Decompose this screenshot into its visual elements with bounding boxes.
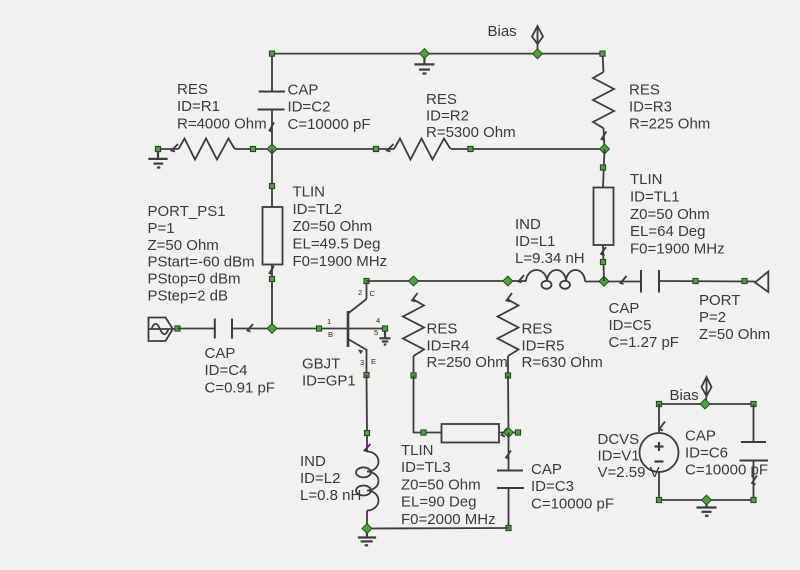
svg-text:R=630 Ohm: R=630 Ohm — [522, 354, 603, 371]
svg-text:RES: RES — [426, 91, 457, 108]
svg-text:EL=64 Deg: EL=64 Deg — [630, 223, 705, 240]
capacitor C6 — [740, 404, 769, 500]
resistor R5 — [498, 293, 519, 376]
svg-text:TLIN: TLIN — [293, 184, 326, 201]
svg-text:EL=49.5 Deg: EL=49.5 Deg — [293, 236, 381, 253]
node TL2 pin1 — [269, 183, 274, 188]
node TL1 pin1 — [600, 165, 605, 170]
node C6 top — [751, 401, 756, 406]
svg-text:ID=V1: ID=V1 — [598, 448, 640, 465]
ground GBJT substrate — [380, 331, 391, 345]
wire R4 down to TL3 — [414, 376, 424, 433]
svg-text:R=225 Ohm: R=225 Ohm — [629, 116, 710, 133]
svg-text:ID=GP1: ID=GP1 — [302, 373, 356, 390]
node TL1 pin2 — [600, 259, 605, 264]
svg-text:ID=C6: ID=C6 — [685, 445, 728, 462]
svg-text:PStep=2 dB: PStep=2 dB — [148, 288, 228, 305]
wire R1-R2-R3 rail — [158, 148, 179, 150]
svg-text:Bias: Bias — [488, 23, 517, 40]
svg-text:TLIN: TLIN — [401, 442, 434, 459]
resistor R2 — [394, 139, 451, 160]
svg-text:ID=R2: ID=R2 — [426, 108, 469, 125]
svg-text:Z0=50 Ohm: Z0=50 Ohm — [630, 206, 710, 223]
node DCVS bottom — [656, 497, 661, 502]
svg-text:ID=C5: ID=C5 — [609, 317, 652, 334]
node L2 pin1 — [364, 430, 369, 435]
svg-text:IND: IND — [515, 216, 541, 233]
inductor L2 — [356, 433, 379, 529]
svg-text:3: 3 — [360, 358, 364, 367]
node R1 pin1 — [155, 146, 160, 151]
transistor GBJT GP1 — [348, 281, 367, 375]
svg-text:ID=C4: ID=C4 — [205, 362, 248, 379]
wire DCVS top rail — [659, 403, 754, 405]
capacitor C5 — [621, 270, 660, 293]
svg-text:PStop=0 dBm: PStop=0 dBm — [148, 271, 241, 288]
wire C5 to port2 — [659, 280, 755, 283]
wire DCVS bottom rail — [659, 499, 754, 501]
svg-text:ID=TL1: ID=TL1 — [630, 188, 680, 205]
node GBJT collector — [364, 278, 369, 283]
node TL3 pin1 — [421, 430, 426, 435]
ground L2 bottom — [358, 532, 376, 545]
svg-text:ID=R3: ID=R3 — [629, 99, 672, 116]
wire L1 to C5 — [585, 281, 641, 283]
svg-text:C=1.27 pF: C=1.27 pF — [609, 334, 679, 351]
svg-text:DCVS: DCVS — [598, 431, 640, 448]
ground top rail — [414, 54, 434, 74]
node R5 pin2 — [505, 373, 510, 378]
wire top bias rail — [272, 53, 603, 55]
svg-text:ID=TL2: ID=TL2 — [293, 201, 343, 218]
wire emitter to L2 — [366, 375, 369, 433]
svg-text:1: 1 — [327, 317, 331, 326]
svg-text:P=2: P=2 — [699, 309, 726, 326]
svg-text:4: 4 — [376, 316, 380, 325]
svg-text:C: C — [370, 289, 376, 298]
svg-text:CAP: CAP — [288, 82, 319, 99]
node TL2 pin2 — [269, 276, 274, 281]
svg-text:PORT_PS1: PORT_PS1 — [148, 203, 226, 220]
svg-text:PORT: PORT — [699, 292, 740, 309]
svg-text:C=10000 pF: C=10000 pF — [288, 116, 371, 133]
svg-text:V=2.59 V: V=2.59 V — [598, 464, 660, 481]
svg-text:L=0.8 nH: L=0.8 nH — [300, 487, 361, 504]
svg-text:L=9.34 nH: L=9.34 nH — [515, 250, 585, 267]
node DCVS top — [656, 401, 661, 406]
node TL3 pin2 stub — [515, 430, 520, 435]
capacitor C2 — [258, 54, 285, 149]
port PORT_PS1 P=1 symbol — [149, 318, 178, 342]
wire port1 to C4 — [178, 328, 215, 330]
resistor R3 — [593, 54, 614, 149]
svg-text:IND: IND — [300, 453, 326, 470]
Bias symbol top — [532, 26, 543, 54]
node junction L1-TL1-C5 — [599, 276, 609, 286]
node junction R3-rail-TL1 — [600, 144, 610, 154]
svg-text:RES: RES — [629, 82, 660, 99]
port PORT P=2 symbol — [755, 272, 768, 293]
node junction C4-TL2-base — [267, 324, 277, 334]
wire C3 bottom to L2 ground — [367, 527, 509, 530]
ground R1 left — [148, 151, 167, 168]
svg-text:F0=1900 MHz: F0=1900 MHz — [293, 253, 388, 270]
capacitor C4 — [215, 319, 253, 339]
svg-text:P=1: P=1 — [148, 220, 175, 237]
wire C4 to base — [232, 328, 385, 330]
inductor L1 — [519, 270, 586, 289]
node R3 top — [600, 51, 605, 56]
node junction L2-ground — [362, 524, 372, 534]
node R2 pin2 — [468, 146, 473, 151]
svg-text:C=10000 pF: C=10000 pF — [685, 462, 768, 479]
wire R5 down to C3 junction — [507, 376, 510, 433]
svg-text:ID=C3: ID=C3 — [531, 478, 574, 495]
svg-text:ID=R5: ID=R5 — [522, 337, 565, 354]
svg-text:ID=L1: ID=L1 — [515, 233, 555, 250]
svg-text:ID=L2: ID=L2 — [300, 470, 340, 487]
svg-text:5: 5 — [374, 328, 378, 337]
node GBJT pin4 — [382, 326, 387, 331]
node junction top ground — [419, 49, 429, 59]
svg-text:C=10000 pF: C=10000 pF — [531, 495, 614, 512]
svg-text:ID=C2: ID=C2 — [288, 99, 331, 116]
wire collector rail — [367, 280, 527, 282]
svg-text:Z0=50 Ohm: Z0=50 Ohm — [401, 476, 481, 493]
svg-text:2: 2 — [358, 288, 362, 297]
node Bias top — [533, 49, 543, 59]
svg-text:F0=2000 MHz: F0=2000 MHz — [401, 511, 496, 528]
svg-text:ID=R4: ID=R4 — [427, 337, 470, 354]
Bias symbol bottom — [702, 377, 712, 404]
node C2 top — [269, 51, 274, 56]
node R2 pin1 — [373, 146, 378, 151]
node C3 pin2 — [506, 525, 511, 530]
svg-text:Z0=50 Ohm: Z0=50 Ohm — [293, 218, 373, 235]
node C5 pin2 — [693, 278, 698, 283]
svg-text:TLIN: TLIN — [630, 171, 663, 188]
svg-text:GBJT: GBJT — [302, 356, 340, 373]
plus minus DCVS — [655, 442, 664, 462]
ground DCVS rail — [697, 504, 717, 516]
tlin TL3 — [424, 424, 519, 443]
node R4 pin2 — [411, 373, 416, 378]
svg-text:CAP: CAP — [531, 461, 562, 478]
capacitor C3 — [497, 433, 524, 529]
node junction DCVS ground — [702, 495, 712, 505]
svg-text:F0=1900 MHz: F0=1900 MHz — [630, 241, 725, 258]
node junction TL3-R5-C3 — [504, 428, 514, 438]
svg-text:CAP: CAP — [205, 345, 236, 362]
tlin TL2 — [263, 149, 283, 329]
svg-text:R=250 Ohm: R=250 Ohm — [427, 354, 508, 371]
svg-text:EL=90 Deg: EL=90 Deg — [401, 494, 476, 511]
svg-text:B: B — [328, 330, 333, 339]
svg-text:R=5300 Ohm: R=5300 Ohm — [426, 124, 516, 141]
node port1 pin — [175, 326, 180, 331]
svg-text:E: E — [371, 357, 376, 366]
svg-text:Z=50 Ohm: Z=50 Ohm — [148, 237, 219, 254]
svg-text:Z=50 Ohm: Z=50 Ohm — [699, 326, 770, 343]
svg-text:Bias: Bias — [670, 387, 699, 404]
svg-text:CAP: CAP — [685, 428, 716, 445]
svg-text:RES: RES — [177, 81, 208, 98]
svg-text:CAP: CAP — [609, 300, 640, 317]
node junction R4 top — [409, 276, 419, 286]
dcvs V1 — [640, 404, 679, 500]
node R1 pin2 — [250, 146, 255, 151]
svg-text:RES: RES — [427, 321, 458, 338]
node port2 pin — [742, 278, 747, 283]
svg-text:ID=TL3: ID=TL3 — [401, 459, 451, 476]
node junction R5-L1 — [503, 276, 513, 286]
resistor R4 — [403, 293, 424, 376]
svg-text:ID=R1: ID=R1 — [177, 98, 220, 115]
svg-text:R=4000 Ohm: R=4000 Ohm — [177, 115, 267, 132]
node GBJT emitter — [364, 372, 369, 377]
node junction C2-TL2-R1-R2 — [267, 144, 277, 154]
svg-text:C=0.91 pF: C=0.91 pF — [205, 379, 275, 396]
node C6 bottom — [751, 497, 756, 502]
node GBJT base — [316, 326, 321, 331]
svg-text:PStart=-60 dBm: PStart=-60 dBm — [148, 254, 255, 271]
node Bias bottom — [700, 399, 710, 409]
svg-text:RES: RES — [522, 321, 553, 338]
tlin TL1 — [594, 149, 614, 281]
resistor R1 — [179, 139, 235, 160]
